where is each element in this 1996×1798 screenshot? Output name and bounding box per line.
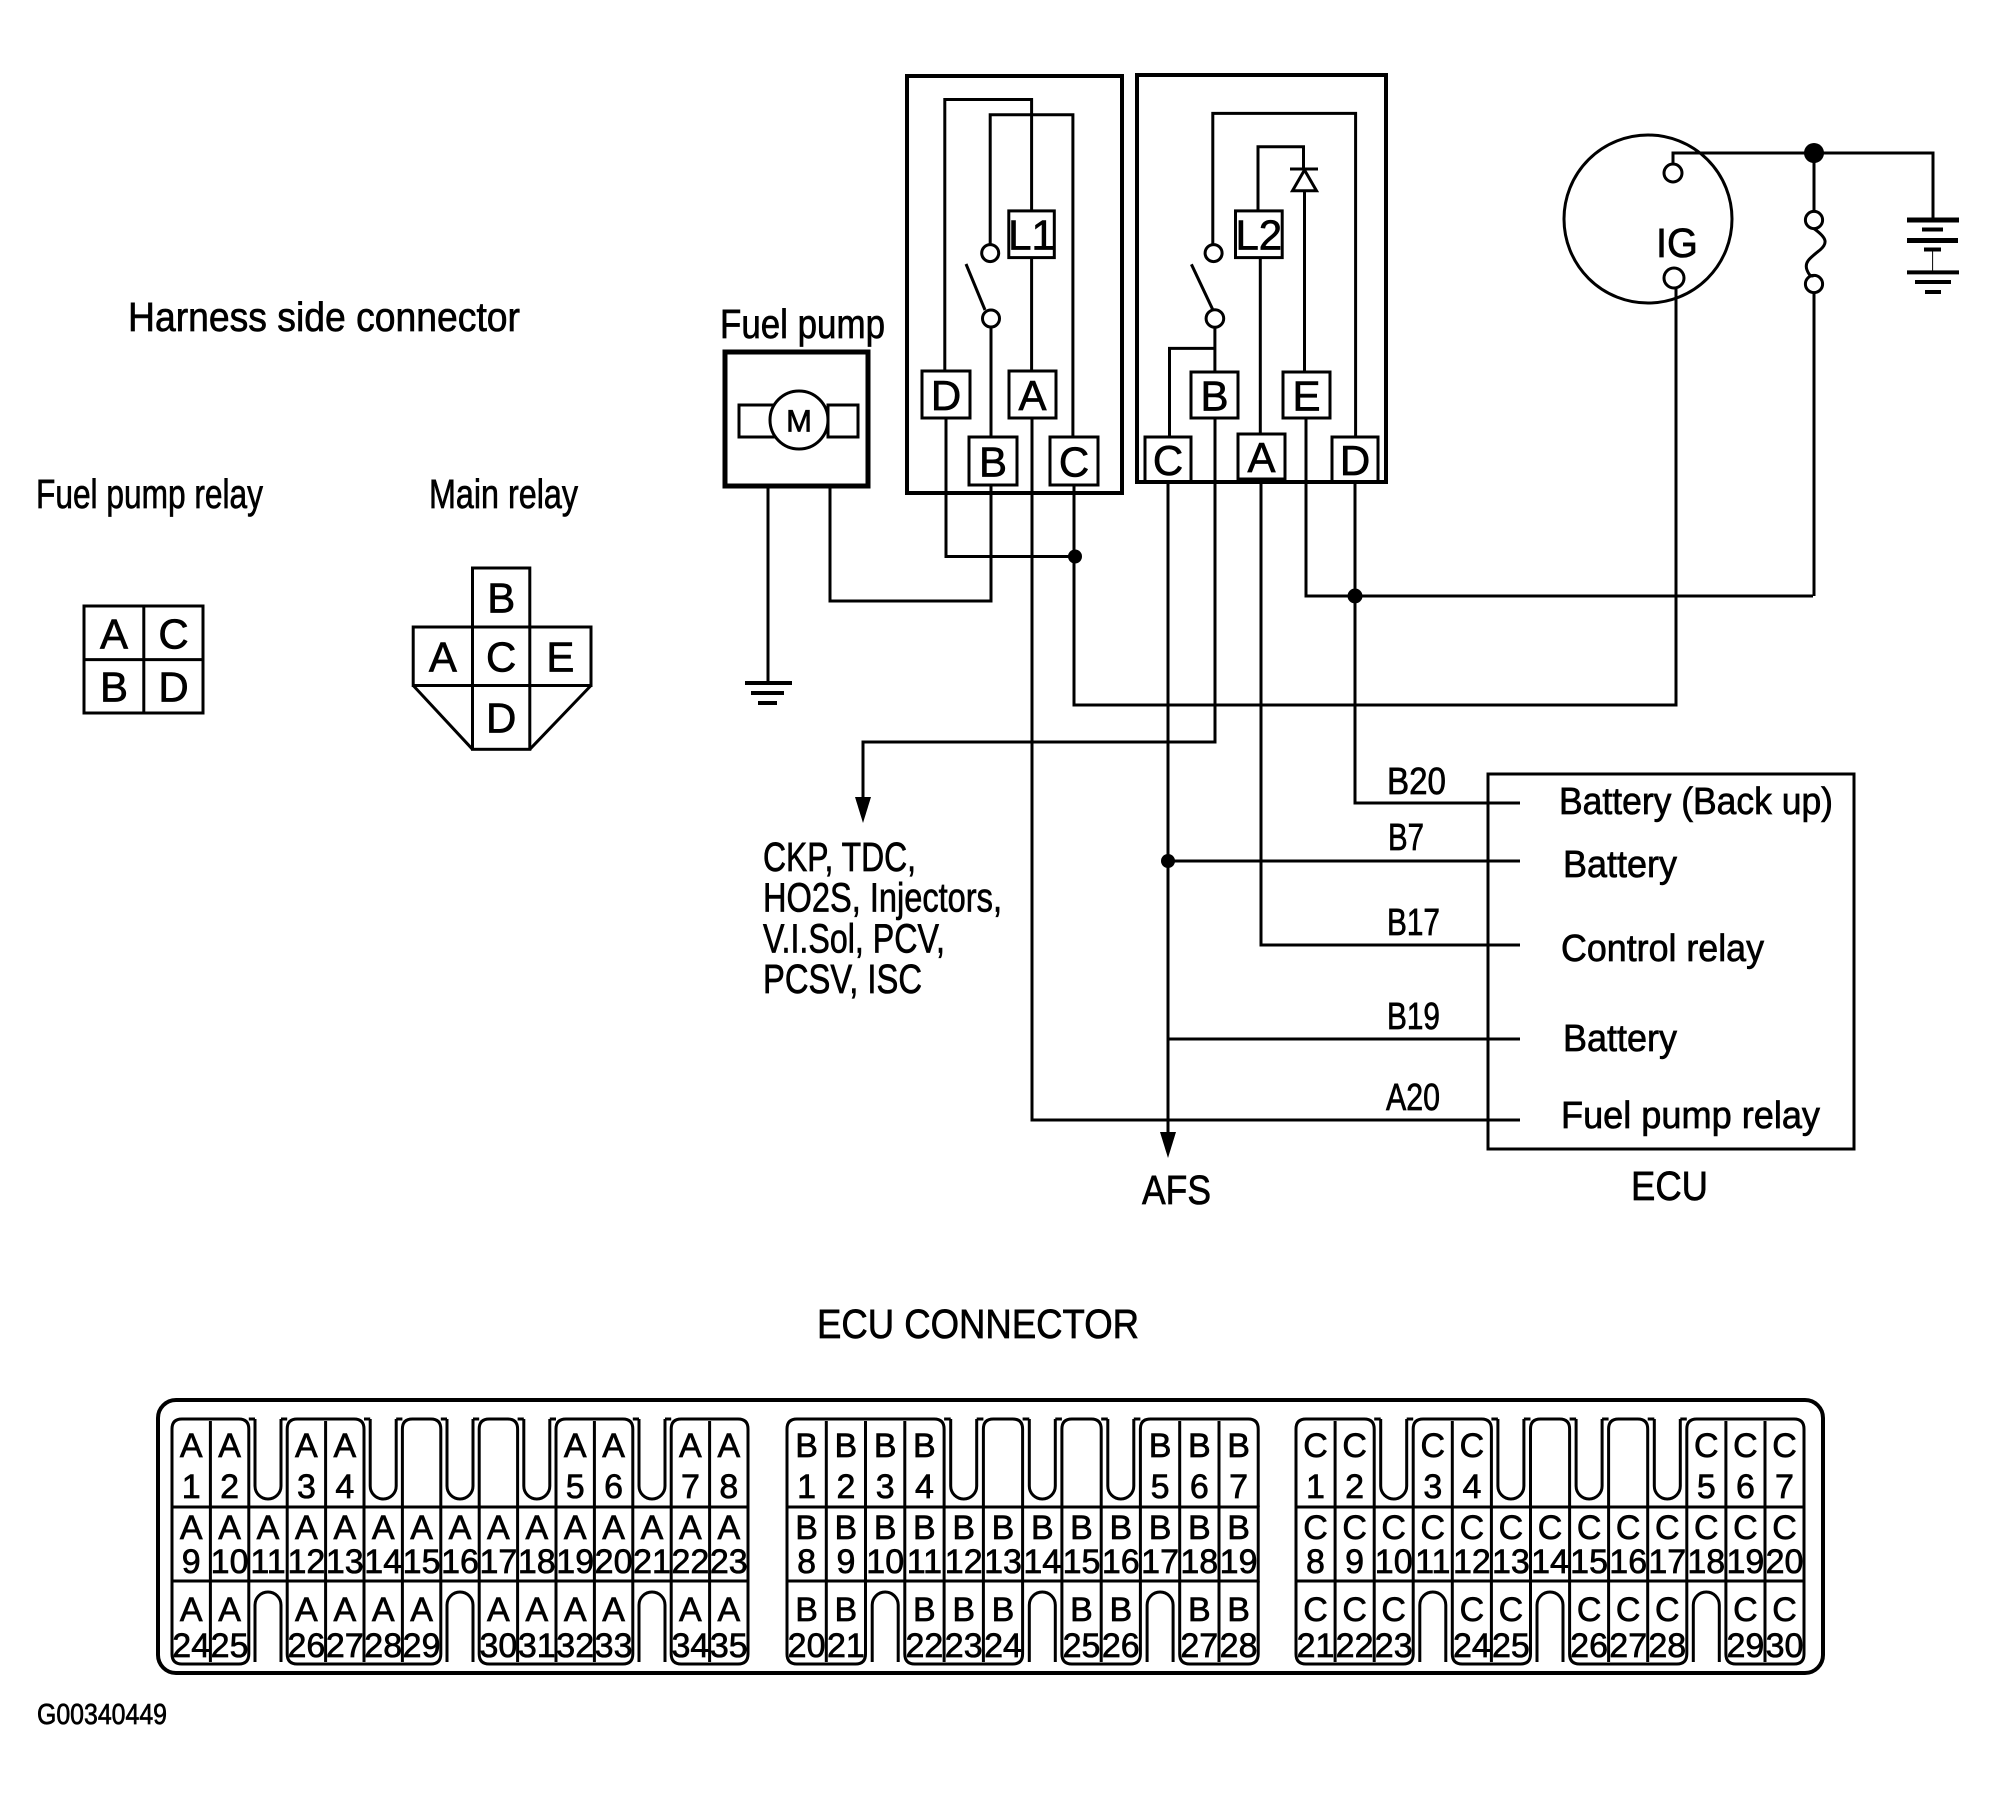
svg-text:A: A bbox=[602, 1509, 625, 1547]
svg-text:B: B bbox=[1109, 1509, 1132, 1547]
fuel pump motor box bbox=[725, 352, 868, 486]
svg-text:PCSV, ISC: PCSV, ISC bbox=[763, 956, 922, 1002]
arrow to CKP/TDC loads bbox=[855, 797, 871, 823]
wire relay2 switch to terminal B bbox=[1213, 327, 1216, 372]
svg-text:19: 19 bbox=[1220, 1543, 1258, 1581]
terminal D (relay1) bbox=[922, 371, 970, 419]
svg-text:C: C bbox=[1655, 1591, 1680, 1629]
svg-text:3: 3 bbox=[1423, 1468, 1442, 1506]
battery bbox=[1907, 220, 1959, 272]
svg-text:C: C bbox=[1577, 1509, 1602, 1547]
svg-text:10: 10 bbox=[866, 1543, 904, 1581]
svg-text:A: A bbox=[410, 1591, 433, 1629]
wire B19 to ECU bbox=[1168, 1038, 1520, 1041]
ECU connector section B: bottom row tabs bbox=[787, 1581, 1258, 1664]
svg-text:B: B bbox=[1149, 1427, 1172, 1465]
svg-text:B: B bbox=[1070, 1509, 1093, 1547]
svg-text:C: C bbox=[1303, 1591, 1328, 1629]
svg-text:C: C bbox=[1577, 1591, 1602, 1629]
terminal B (relay1) bbox=[969, 437, 1017, 486]
svg-text:C: C bbox=[1694, 1427, 1719, 1465]
svg-text:5: 5 bbox=[566, 1468, 585, 1506]
connector: fuel pump relay harness side (pins A C B D) bbox=[84, 606, 203, 713]
svg-text:18: 18 bbox=[1180, 1543, 1218, 1581]
svg-text:1: 1 bbox=[182, 1468, 201, 1506]
svg-text:7: 7 bbox=[1775, 1468, 1794, 1506]
ECU connector section C: bottom row tabs bbox=[1296, 1581, 1804, 1664]
svg-text:Main relay: Main relay bbox=[429, 471, 578, 517]
diode (main relay) bbox=[1290, 169, 1318, 191]
svg-text:13: 13 bbox=[326, 1543, 364, 1581]
svg-text:C: C bbox=[1772, 1427, 1797, 1465]
svg-text:C: C bbox=[1499, 1509, 1524, 1547]
svg-text:C: C bbox=[158, 611, 188, 658]
svg-text:B20: B20 bbox=[1387, 761, 1446, 803]
svg-text:4: 4 bbox=[335, 1468, 354, 1506]
svg-text:22: 22 bbox=[1336, 1627, 1374, 1665]
svg-text:A: A bbox=[602, 1591, 625, 1629]
svg-text:26: 26 bbox=[1102, 1627, 1140, 1665]
svg-text:C: C bbox=[1733, 1509, 1758, 1547]
svg-text:B: B bbox=[913, 1591, 936, 1629]
motor brush right bbox=[828, 405, 858, 437]
svg-text:10: 10 bbox=[211, 1543, 249, 1581]
svg-text:8: 8 bbox=[719, 1468, 738, 1506]
svg-text:C: C bbox=[1381, 1591, 1406, 1629]
svg-text:B: B bbox=[795, 1509, 818, 1547]
svg-text:B19: B19 bbox=[1387, 996, 1440, 1038]
svg-text:A: A bbox=[602, 1427, 625, 1465]
svg-text:26: 26 bbox=[287, 1627, 325, 1665]
svg-text:A: A bbox=[717, 1591, 740, 1629]
connector: main relay harness side (pins B / A C E / D) bbox=[413, 568, 591, 749]
svg-text:B: B bbox=[795, 1591, 818, 1629]
svg-text:C: C bbox=[1153, 437, 1183, 484]
svg-text:E: E bbox=[546, 634, 574, 681]
svg-text:B: B bbox=[992, 1591, 1015, 1629]
svg-text:B: B bbox=[952, 1509, 975, 1547]
svg-text:30: 30 bbox=[479, 1627, 517, 1665]
svg-text:33: 33 bbox=[595, 1627, 633, 1665]
svg-text:17: 17 bbox=[479, 1543, 517, 1581]
svg-text:15: 15 bbox=[1570, 1543, 1608, 1581]
svg-text:B: B bbox=[1227, 1509, 1250, 1547]
terminal B (relay2) bbox=[1191, 372, 1238, 420]
svg-text:C: C bbox=[1421, 1427, 1446, 1465]
svg-text:D: D bbox=[1340, 437, 1370, 484]
svg-text:C: C bbox=[1616, 1509, 1641, 1547]
svg-text:15: 15 bbox=[403, 1543, 441, 1581]
svg-text:19: 19 bbox=[556, 1543, 594, 1581]
svg-text:7: 7 bbox=[681, 1468, 700, 1506]
terminal A (relay2) bbox=[1238, 434, 1285, 481]
svg-text:25: 25 bbox=[211, 1627, 249, 1665]
svg-text:27: 27 bbox=[326, 1627, 364, 1665]
svg-text:A: A bbox=[449, 1509, 472, 1547]
svg-text:6: 6 bbox=[1736, 1468, 1755, 1506]
svg-text:1: 1 bbox=[1306, 1468, 1325, 1506]
relay coil L2 bbox=[1235, 211, 1282, 259]
wire L1 to terminal A bbox=[1030, 258, 1033, 371]
ECU connector section C: top row tabs bbox=[1296, 1419, 1804, 1507]
wire relay2 switch branch to terminal C bbox=[1170, 348, 1215, 437]
ECU connector section B: top row tabs bbox=[787, 1419, 1258, 1507]
svg-text:A: A bbox=[525, 1591, 548, 1629]
svg-text:Fuel pump relay: Fuel pump relay bbox=[1561, 1095, 1820, 1137]
svg-text:32: 32 bbox=[556, 1627, 594, 1665]
svg-text:D: D bbox=[931, 372, 961, 419]
svg-text:ECU CONNECTOR: ECU CONNECTOR bbox=[817, 1301, 1139, 1347]
svg-text:27: 27 bbox=[1609, 1627, 1647, 1665]
terminal C (relay1) bbox=[1050, 437, 1098, 486]
svg-text:B: B bbox=[874, 1427, 897, 1465]
svg-text:16: 16 bbox=[441, 1543, 479, 1581]
svg-text:A: A bbox=[295, 1591, 318, 1629]
wire B7 to ECU bbox=[1168, 860, 1520, 863]
arrow to AFS bbox=[1160, 1132, 1176, 1158]
svg-text:A: A bbox=[333, 1591, 356, 1629]
svg-text:B: B bbox=[835, 1591, 858, 1629]
wire relay1 coil loop D side bbox=[945, 100, 1032, 372]
svg-text:B: B bbox=[1227, 1427, 1250, 1465]
svg-text:17: 17 bbox=[1141, 1543, 1179, 1581]
svg-text:ECU: ECU bbox=[1631, 1163, 1708, 1209]
ECU connector section A: top row tabs bbox=[172, 1419, 748, 1507]
svg-text:E: E bbox=[1292, 373, 1320, 420]
svg-text:18: 18 bbox=[1687, 1543, 1725, 1581]
svg-text:Battery (Back up): Battery (Back up) bbox=[1559, 781, 1833, 823]
svg-text:L2: L2 bbox=[1235, 212, 1282, 259]
svg-text:22: 22 bbox=[671, 1543, 709, 1581]
svg-text:25: 25 bbox=[1063, 1627, 1101, 1665]
svg-text:B: B bbox=[913, 1509, 936, 1547]
svg-text:24: 24 bbox=[984, 1627, 1022, 1665]
svg-text:AFS: AFS bbox=[1142, 1167, 1211, 1213]
svg-text:A: A bbox=[257, 1509, 280, 1547]
svg-text:A: A bbox=[487, 1509, 510, 1547]
svg-text:L1: L1 bbox=[1008, 212, 1055, 259]
svg-text:A: A bbox=[679, 1591, 702, 1629]
wire B20 to ECU bbox=[1355, 596, 1520, 803]
svg-text:C: C bbox=[1772, 1591, 1797, 1629]
svg-text:A: A bbox=[180, 1591, 203, 1629]
svg-text:B: B bbox=[992, 1509, 1015, 1547]
svg-text:A: A bbox=[679, 1427, 702, 1465]
svg-text:A: A bbox=[410, 1509, 433, 1547]
svg-text:C: C bbox=[1342, 1509, 1367, 1547]
svg-text:14: 14 bbox=[1023, 1543, 1061, 1581]
ECU connector section A: middle row pins bbox=[172, 1507, 748, 1581]
svg-text:B17: B17 bbox=[1387, 902, 1440, 944]
svg-text:8: 8 bbox=[797, 1543, 816, 1581]
svg-text:CKP, TDC,: CKP, TDC, bbox=[763, 834, 916, 880]
svg-text:13: 13 bbox=[984, 1543, 1022, 1581]
wire fuel pump + to relay terminal B bbox=[830, 485, 991, 601]
svg-text:C: C bbox=[1616, 1591, 1641, 1629]
svg-text:17: 17 bbox=[1648, 1543, 1686, 1581]
ECU connector section B: middle row pins bbox=[787, 1507, 1258, 1581]
svg-text:D: D bbox=[486, 695, 516, 742]
svg-text:4: 4 bbox=[915, 1468, 934, 1506]
motor M (fuel pump) bbox=[770, 391, 828, 449]
svg-text:4: 4 bbox=[1462, 1468, 1481, 1506]
svg-text:C: C bbox=[1772, 1509, 1797, 1547]
svg-text:A: A bbox=[1247, 434, 1275, 481]
relay2 switch contact bbox=[1191, 245, 1223, 328]
svg-text:28: 28 bbox=[364, 1627, 402, 1665]
svg-text:B: B bbox=[1070, 1591, 1093, 1629]
svg-text:16: 16 bbox=[1609, 1543, 1647, 1581]
svg-text:28: 28 bbox=[1220, 1627, 1258, 1665]
svg-text:A: A bbox=[180, 1427, 203, 1465]
svg-text:Fuel pump: Fuel pump bbox=[720, 301, 885, 347]
svg-text:Battery: Battery bbox=[1563, 844, 1677, 886]
label: CKP TDC load list bbox=[763, 834, 1002, 1002]
node: B7 branch on AFS wire bbox=[1161, 854, 1175, 868]
svg-text:24: 24 bbox=[172, 1627, 210, 1665]
wire relay2 E to fusible link bbox=[1306, 418, 1813, 596]
svg-text:C: C bbox=[1303, 1509, 1328, 1547]
svg-text:C: C bbox=[1694, 1509, 1719, 1547]
svg-text:B: B bbox=[874, 1509, 897, 1547]
svg-text:20: 20 bbox=[595, 1543, 633, 1581]
wire relay1 D to node on C wire bbox=[946, 418, 1075, 557]
svg-text:C: C bbox=[1733, 1591, 1758, 1629]
svg-text:B: B bbox=[487, 575, 515, 622]
ignition switch IG bbox=[1564, 135, 1732, 303]
wire relay2 D to node bbox=[1354, 482, 1357, 596]
svg-text:B: B bbox=[1227, 1591, 1250, 1629]
relay1 switch contact bbox=[966, 245, 1000, 327]
node: D/E/B20 junction bbox=[1348, 589, 1363, 604]
svg-text:Harness side connector: Harness side connector bbox=[128, 294, 520, 340]
svg-text:C: C bbox=[1460, 1509, 1485, 1547]
svg-text:24: 24 bbox=[1453, 1627, 1491, 1665]
terminal A (relay1) bbox=[1009, 371, 1056, 419]
svg-text:A: A bbox=[333, 1509, 356, 1547]
svg-text:A: A bbox=[180, 1509, 203, 1547]
svg-text:Control relay: Control relay bbox=[1561, 928, 1764, 970]
svg-text:C: C bbox=[1303, 1427, 1328, 1465]
wire relay2 loop switch to terminal D bbox=[1213, 113, 1356, 437]
svg-text:18: 18 bbox=[518, 1543, 556, 1581]
svg-text:30: 30 bbox=[1766, 1627, 1804, 1665]
svg-text:A: A bbox=[1018, 372, 1046, 419]
svg-text:A: A bbox=[564, 1509, 587, 1547]
wire relay2 A to ECU pin B17 bbox=[1261, 479, 1520, 945]
svg-text:11: 11 bbox=[1415, 1543, 1450, 1581]
svg-text:A: A bbox=[717, 1509, 740, 1547]
wire relay1 switch to terminal B bbox=[990, 327, 993, 437]
svg-text:B: B bbox=[100, 664, 128, 711]
svg-text:C: C bbox=[1460, 1427, 1485, 1465]
svg-text:8: 8 bbox=[1306, 1543, 1325, 1581]
svg-text:15: 15 bbox=[1063, 1543, 1101, 1581]
svg-text:A: A bbox=[372, 1509, 395, 1547]
svg-text:20: 20 bbox=[1766, 1543, 1804, 1581]
svg-text:B: B bbox=[835, 1427, 858, 1465]
svg-text:Fuel pump relay: Fuel pump relay bbox=[36, 471, 263, 517]
svg-text:35: 35 bbox=[710, 1627, 748, 1665]
svg-text:B7: B7 bbox=[1388, 817, 1424, 859]
fusible link bbox=[1805, 153, 1825, 596]
svg-text:A: A bbox=[218, 1591, 241, 1629]
svg-text:9: 9 bbox=[182, 1543, 201, 1581]
svg-text:22: 22 bbox=[905, 1627, 943, 1665]
svg-text:21: 21 bbox=[827, 1627, 865, 1665]
svg-text:A: A bbox=[295, 1427, 318, 1465]
svg-text:B: B bbox=[1109, 1591, 1132, 1629]
svg-text:A: A bbox=[100, 611, 128, 658]
svg-text:6: 6 bbox=[1190, 1468, 1209, 1506]
wire IG to battery positive bbox=[1673, 153, 1933, 219]
svg-text:C: C bbox=[1538, 1509, 1563, 1547]
svg-text:C: C bbox=[1342, 1427, 1367, 1465]
svg-text:20: 20 bbox=[788, 1627, 826, 1665]
svg-text:A: A bbox=[372, 1591, 395, 1629]
svg-text:A: A bbox=[295, 1509, 318, 1547]
wire relay1 contact loop C side bbox=[990, 115, 1073, 437]
wire L2 to terminal A bbox=[1259, 258, 1262, 434]
svg-text:IG: IG bbox=[1656, 220, 1698, 266]
svg-text:19: 19 bbox=[1726, 1543, 1764, 1581]
svg-text:B: B bbox=[1200, 373, 1228, 420]
svg-text:B: B bbox=[835, 1509, 858, 1547]
svg-text:B: B bbox=[913, 1427, 936, 1465]
ECU connector shell bbox=[158, 1400, 1823, 1673]
svg-text:14: 14 bbox=[364, 1543, 402, 1581]
svg-text:A: A bbox=[525, 1509, 548, 1547]
svg-text:29: 29 bbox=[403, 1627, 441, 1665]
wire relay2 coil/diode loop bbox=[1258, 147, 1304, 211]
svg-text:2: 2 bbox=[1345, 1468, 1364, 1506]
ECU connector section A: bottom row tabs bbox=[172, 1581, 748, 1664]
svg-text:Battery: Battery bbox=[1563, 1018, 1677, 1060]
svg-text:27: 27 bbox=[1180, 1627, 1218, 1665]
terminal D (relay2) bbox=[1332, 437, 1378, 484]
svg-text:A: A bbox=[218, 1427, 241, 1465]
svg-text:B: B bbox=[1188, 1591, 1211, 1629]
ECU connector section C: middle row pins bbox=[1296, 1507, 1804, 1581]
svg-text:G00340449: G00340449 bbox=[37, 1699, 167, 1731]
svg-text:B: B bbox=[952, 1591, 975, 1629]
svg-text:C: C bbox=[1421, 1509, 1446, 1547]
svg-text:16: 16 bbox=[1102, 1543, 1140, 1581]
svg-text:9: 9 bbox=[836, 1543, 855, 1581]
svg-text:C: C bbox=[1655, 1509, 1680, 1547]
motor brush left bbox=[739, 405, 775, 437]
svg-text:A: A bbox=[679, 1509, 702, 1547]
node: battery feed junction bbox=[1804, 143, 1824, 163]
svg-text:29: 29 bbox=[1726, 1627, 1764, 1665]
svg-text:V.I.Sol, PCV,: V.I.Sol, PCV, bbox=[763, 915, 945, 961]
svg-text:B: B bbox=[1031, 1509, 1054, 1547]
svg-text:A: A bbox=[487, 1591, 510, 1629]
relay coil L1 bbox=[1008, 211, 1055, 259]
svg-text:B: B bbox=[979, 439, 1007, 486]
svg-text:A: A bbox=[564, 1427, 587, 1465]
svg-text:6: 6 bbox=[604, 1468, 623, 1506]
svg-text:B: B bbox=[1149, 1509, 1172, 1547]
svg-text:12: 12 bbox=[945, 1543, 983, 1581]
svg-text:31: 31 bbox=[518, 1627, 556, 1665]
svg-text:C: C bbox=[1342, 1591, 1367, 1629]
ground (fuel pump) bbox=[745, 683, 792, 703]
svg-text:25: 25 bbox=[1492, 1627, 1530, 1665]
svg-text:2: 2 bbox=[836, 1468, 855, 1506]
svg-text:C: C bbox=[1733, 1427, 1758, 1465]
svg-text:C: C bbox=[1381, 1509, 1406, 1547]
svg-text:A20: A20 bbox=[1386, 1077, 1440, 1119]
svg-text:2: 2 bbox=[220, 1468, 239, 1506]
svg-text:B: B bbox=[795, 1427, 818, 1465]
svg-text:B: B bbox=[1188, 1509, 1211, 1547]
ECU box bbox=[1488, 774, 1854, 1149]
wire relay2 B to CKP/TDC loads bbox=[863, 418, 1215, 799]
svg-text:C: C bbox=[1499, 1591, 1524, 1629]
wire relay2 C to AFS bbox=[1167, 482, 1170, 1133]
terminal C (relay2) bbox=[1145, 437, 1191, 484]
svg-text:12: 12 bbox=[1453, 1543, 1491, 1581]
svg-text:M: M bbox=[786, 404, 812, 439]
svg-text:C: C bbox=[1460, 1591, 1485, 1629]
svg-text:26: 26 bbox=[1570, 1627, 1608, 1665]
svg-text:14: 14 bbox=[1531, 1543, 1569, 1581]
fuel pump relay box bbox=[907, 76, 1122, 493]
svg-text:21: 21 bbox=[633, 1543, 671, 1581]
svg-text:13: 13 bbox=[1492, 1543, 1530, 1581]
svg-text:9: 9 bbox=[1345, 1543, 1364, 1581]
svg-text:A: A bbox=[429, 634, 457, 681]
svg-text:3: 3 bbox=[876, 1468, 895, 1506]
svg-text:23: 23 bbox=[710, 1543, 748, 1581]
svg-text:21: 21 bbox=[1297, 1627, 1335, 1665]
svg-text:11: 11 bbox=[250, 1543, 285, 1581]
svg-text:C: C bbox=[1059, 439, 1089, 486]
svg-text:A: A bbox=[717, 1427, 740, 1465]
svg-text:23: 23 bbox=[945, 1627, 983, 1665]
svg-text:5: 5 bbox=[1697, 1468, 1716, 1506]
svg-text:12: 12 bbox=[287, 1543, 325, 1581]
svg-text:A: A bbox=[641, 1509, 664, 1547]
svg-text:D: D bbox=[158, 664, 188, 711]
svg-text:23: 23 bbox=[1375, 1627, 1413, 1665]
svg-text:11: 11 bbox=[907, 1543, 942, 1581]
svg-text:7: 7 bbox=[1229, 1468, 1248, 1506]
main relay box bbox=[1137, 75, 1386, 482]
svg-text:10: 10 bbox=[1375, 1543, 1413, 1581]
svg-text:HO2S, Injectors,: HO2S, Injectors, bbox=[763, 875, 1002, 921]
terminal E (relay2) bbox=[1283, 372, 1330, 420]
svg-text:3: 3 bbox=[297, 1468, 316, 1506]
svg-text:A: A bbox=[218, 1509, 241, 1547]
svg-text:A: A bbox=[564, 1591, 587, 1629]
svg-text:B: B bbox=[1188, 1427, 1211, 1465]
wire relay1 C to ignition switch IG bbox=[1074, 288, 1676, 705]
svg-text:C: C bbox=[486, 634, 516, 681]
wire relay1 A to ECU pin A20 bbox=[1032, 418, 1520, 1120]
wire diode to terminal E bbox=[1303, 191, 1306, 372]
node: D/C junction (relay1) bbox=[1068, 550, 1082, 564]
svg-text:28: 28 bbox=[1648, 1627, 1686, 1665]
svg-text:1: 1 bbox=[797, 1468, 816, 1506]
wire fuel pump to ground bbox=[767, 486, 770, 683]
svg-text:5: 5 bbox=[1151, 1468, 1170, 1506]
svg-text:A: A bbox=[333, 1427, 356, 1465]
svg-text:34: 34 bbox=[671, 1627, 709, 1665]
ground (battery) bbox=[1907, 272, 1959, 292]
